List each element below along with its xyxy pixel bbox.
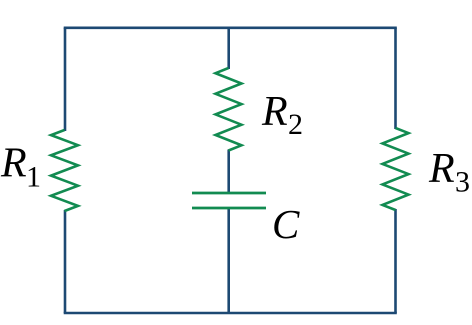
wire top horizontal xyxy=(64,26,397,29)
svg-text:R: R xyxy=(0,141,27,187)
capacitor C top plate xyxy=(192,192,266,195)
resistor R3 xyxy=(383,128,409,210)
svg-text:2: 2 xyxy=(288,108,303,141)
wire middle branch bottom segment xyxy=(227,208,230,314)
wire middle segment between R2 and capacitor xyxy=(227,150,230,193)
svg-text:1: 1 xyxy=(26,161,41,194)
svg-text:R: R xyxy=(428,146,455,192)
wire middle branch top segment xyxy=(227,28,230,69)
capacitor C bottom plate xyxy=(192,207,266,210)
wire right branch top segment xyxy=(394,28,397,129)
svg-text:R: R xyxy=(261,89,288,135)
resistor R2 xyxy=(216,68,242,151)
wire right branch bottom segment xyxy=(394,209,397,313)
svg-text:3: 3 xyxy=(455,166,470,199)
svg-text:C: C xyxy=(272,201,300,247)
wire bottom horizontal xyxy=(64,312,397,315)
wire left branch bottom segment xyxy=(64,210,67,313)
resistor R1 xyxy=(51,130,78,211)
wire left branch top segment xyxy=(64,28,67,131)
